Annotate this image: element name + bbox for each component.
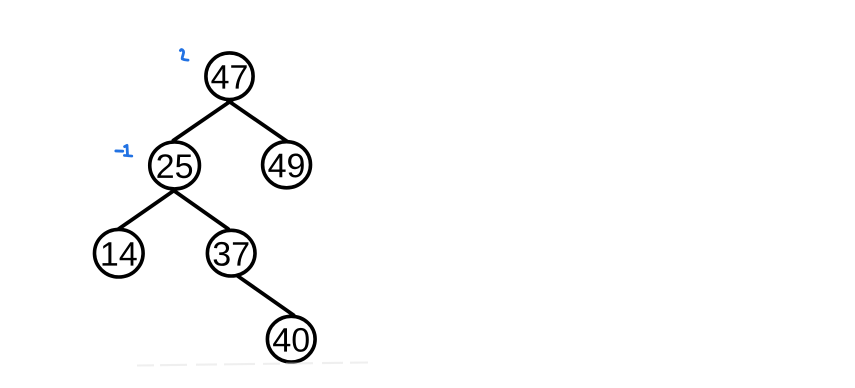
node 47 circle: [206, 53, 253, 100]
node 14 value label: [103, 242, 137, 265]
node 25 value label: [157, 154, 192, 178]
node 37 circle: [207, 230, 255, 276]
node 37 value label: [214, 242, 249, 266]
annotation balance factor 2 (blue, handwritten): [180, 50, 188, 61]
node 14 circle: [95, 229, 144, 277]
wire edge 25-14: [118, 189, 176, 230]
node 49 circle: [263, 142, 311, 188]
annotation balance factor -1 (blue, handwritten): [116, 145, 132, 156]
node 47 value label: [211, 65, 246, 88]
node 40 circle: [267, 316, 315, 362]
node 49 value label: [268, 154, 303, 178]
faint smudge line at bottom: [137, 363, 368, 366]
node 25 circle: [150, 142, 200, 189]
node 40 value label: [273, 328, 309, 352]
wire edge 47-49: [228, 101, 287, 142]
wire edge 37-40: [238, 276, 294, 315]
wire edge 25-37: [172, 189, 228, 229]
wire edge 47-25: [173, 100, 232, 140]
